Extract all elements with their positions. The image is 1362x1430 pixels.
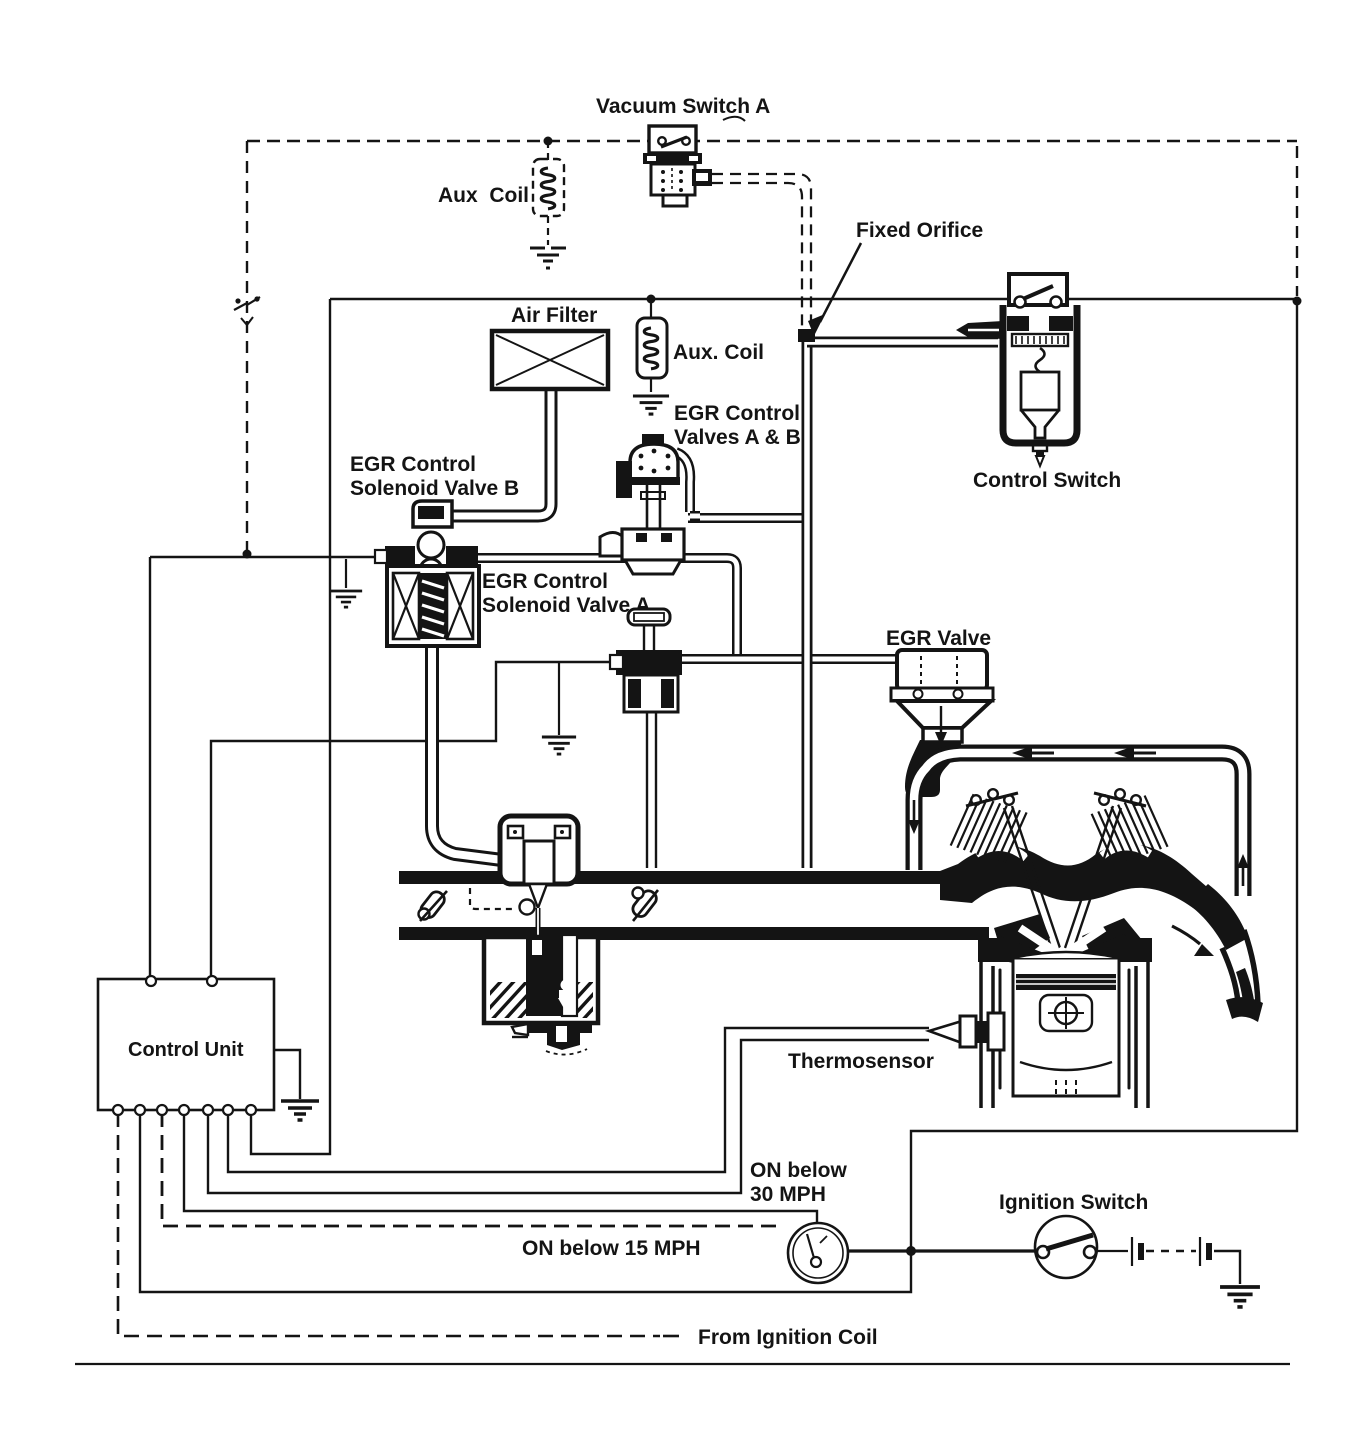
svg-text:Thermosensor: Thermosensor xyxy=(788,1050,934,1073)
svg-text:From Ignition Coil: From Ignition Coil xyxy=(698,1326,878,1349)
svg-text:Vacuum Switch A: Vacuum Switch A xyxy=(596,95,770,118)
svg-text:Aux Coil: Aux Coil xyxy=(438,184,529,207)
svg-text:Ignition Switch: Ignition Switch xyxy=(999,1191,1148,1214)
svg-text:EGR Control: EGR Control xyxy=(674,402,800,425)
svg-text:EGR Control: EGR Control xyxy=(482,570,608,593)
svg-text:Valves A & B: Valves A & B xyxy=(674,426,801,449)
svg-text:Solenoid Valve A: Solenoid Valve A xyxy=(482,594,650,617)
svg-text:EGR Control: EGR Control xyxy=(350,453,476,476)
svg-text:Fixed Orifice: Fixed Orifice xyxy=(856,219,983,242)
svg-text:ON below 15 MPH: ON below 15 MPH xyxy=(522,1237,701,1260)
svg-text:Control Switch: Control Switch xyxy=(973,469,1121,492)
svg-text:Control Unit: Control Unit xyxy=(128,1039,244,1061)
svg-text:ON below: ON below xyxy=(750,1159,848,1182)
svg-text:Air Filter: Air Filter xyxy=(511,304,597,327)
svg-text:Aux. Coil: Aux. Coil xyxy=(673,341,764,364)
svg-text:Solenoid Valve B: Solenoid Valve B xyxy=(350,477,519,500)
svg-text:EGR Valve: EGR Valve xyxy=(886,627,991,650)
svg-text:30 MPH: 30 MPH xyxy=(750,1183,826,1206)
